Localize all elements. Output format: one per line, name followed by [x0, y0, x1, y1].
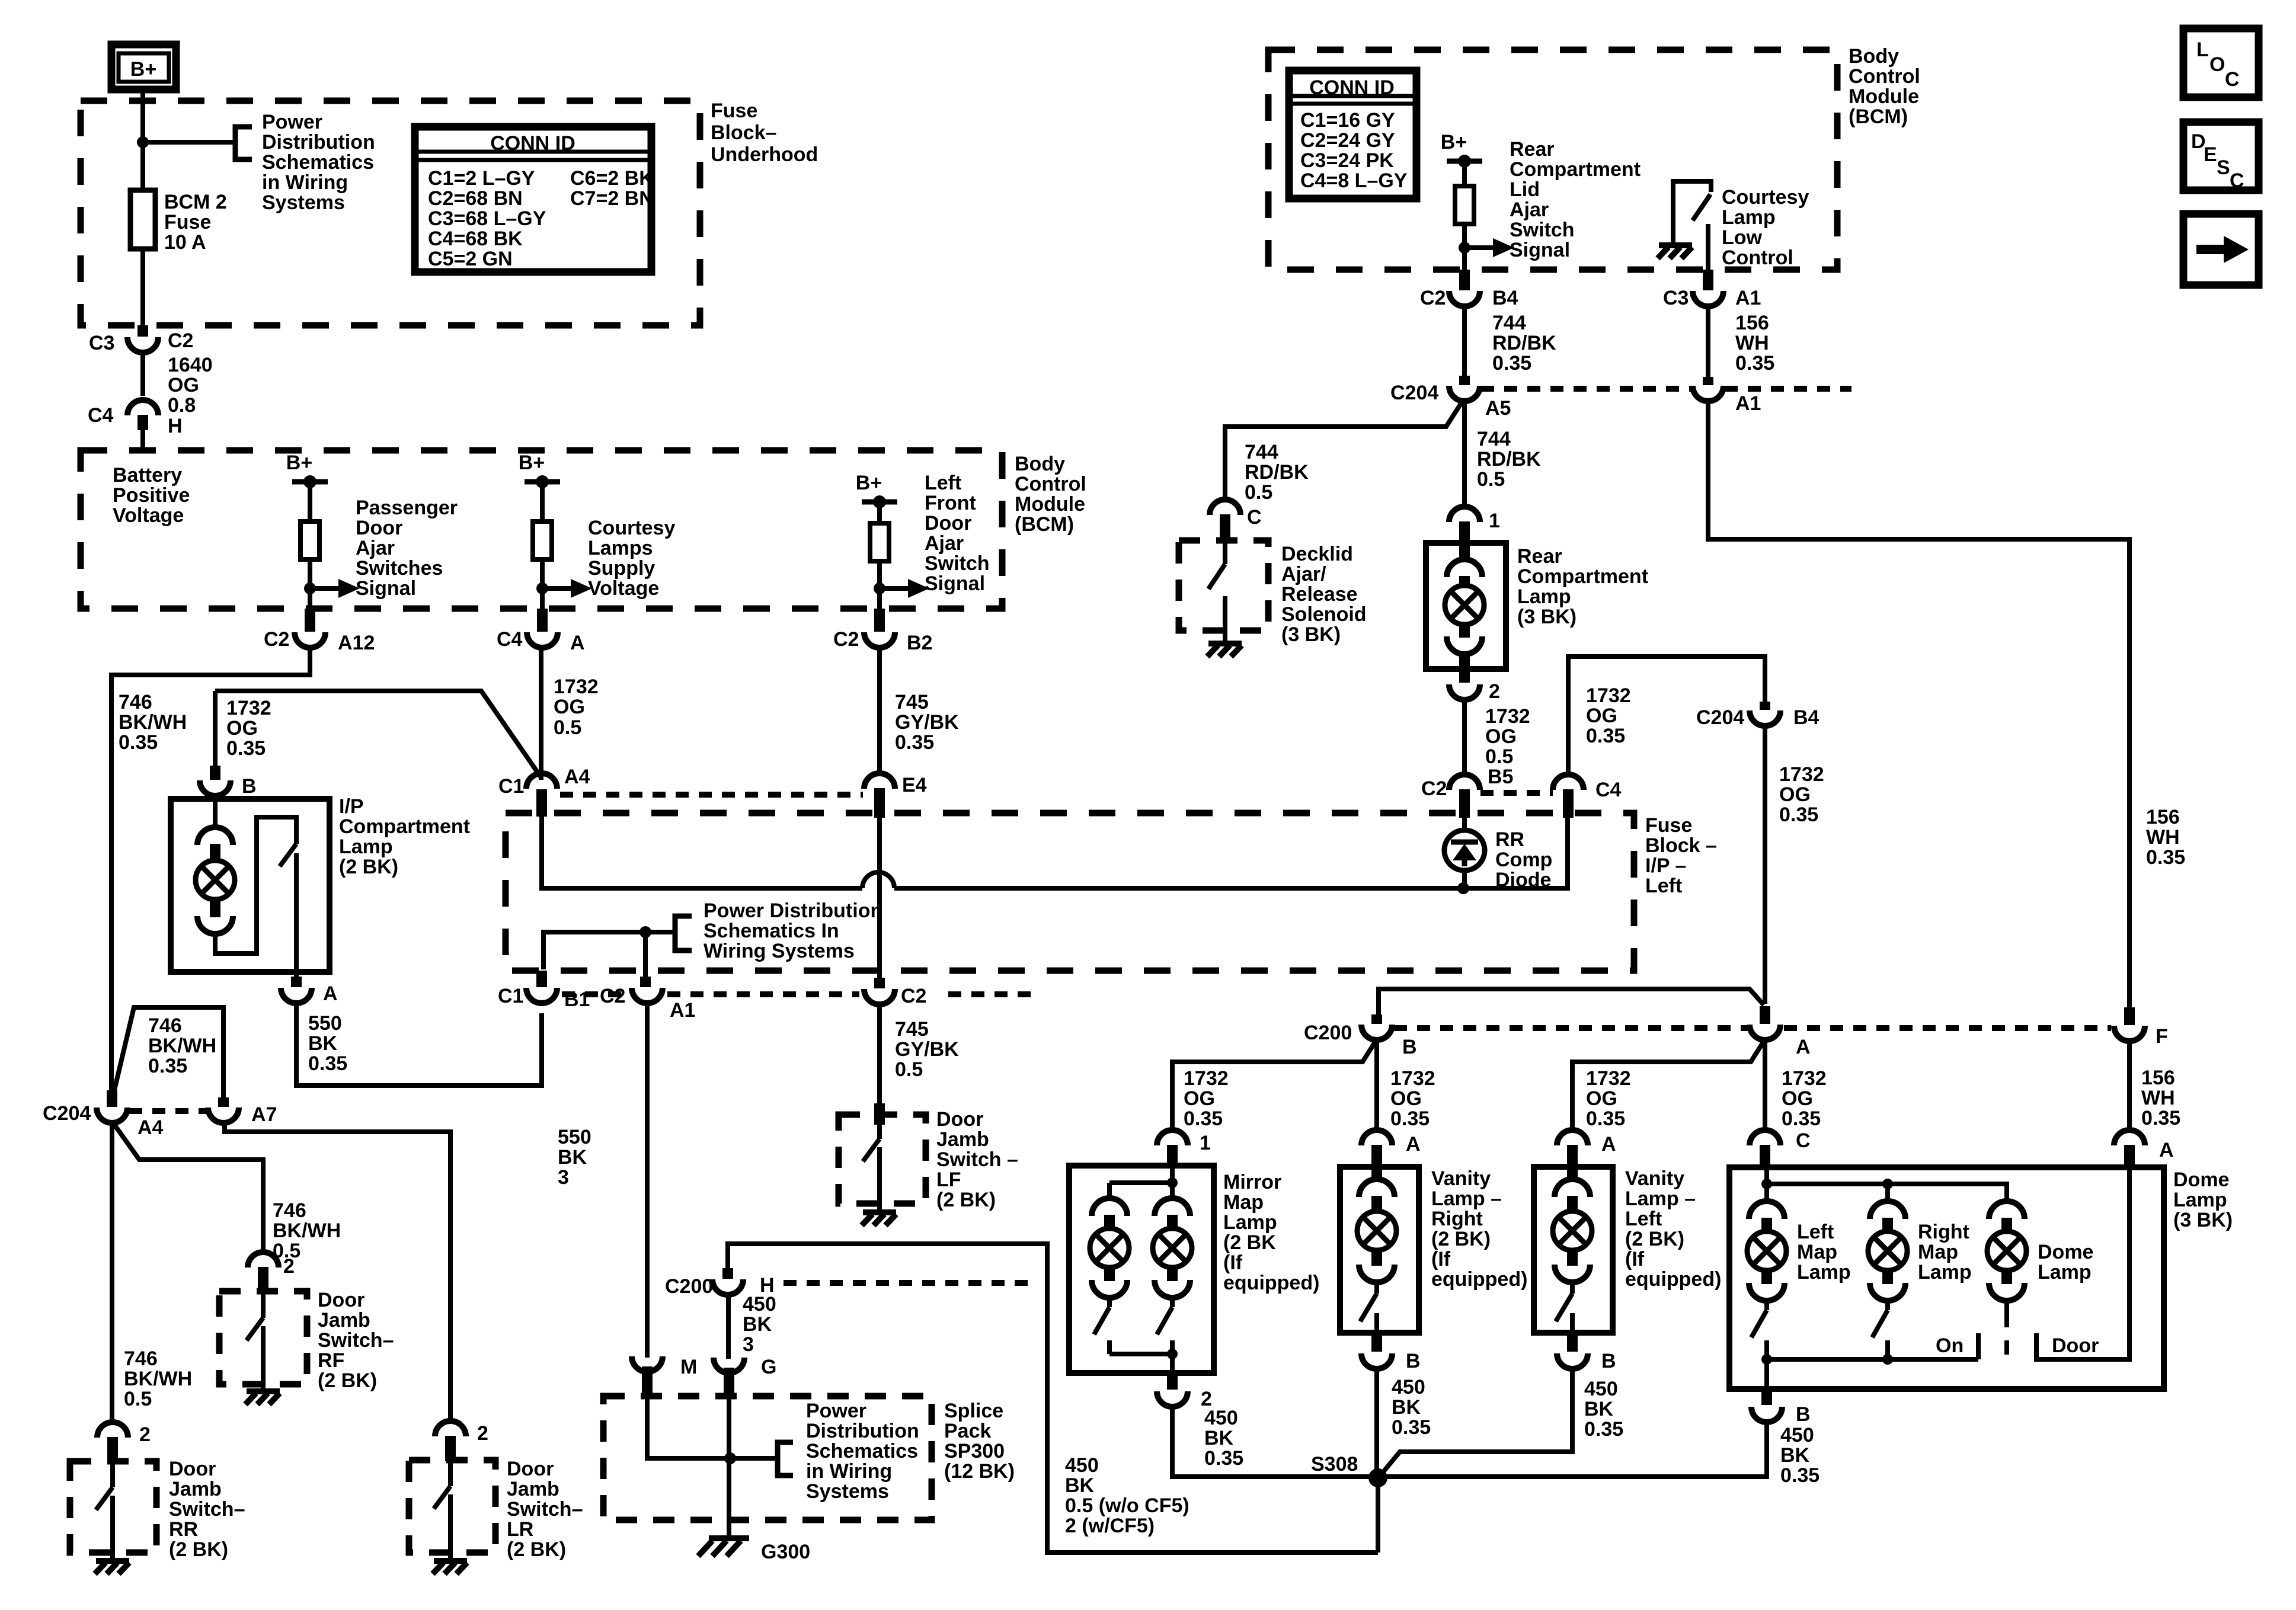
svg-text:BK/WH: BK/WH: [124, 1368, 192, 1390]
svg-text:Courtesy: Courtesy: [1722, 186, 1809, 209]
connector B vanity left: [1567, 1333, 1578, 1352]
svg-text:746: 746: [119, 691, 152, 713]
connector C204/B4: [1750, 710, 1780, 726]
connector A vanity left: [1557, 1130, 1588, 1145]
svg-text:10 A: 10 A: [164, 231, 206, 254]
svg-text:Compartment: Compartment: [339, 815, 470, 838]
svg-text:(If: (If: [1223, 1251, 1243, 1274]
inline connector dashed line B1 A1 C2: [562, 991, 627, 997]
svg-text:Map: Map: [1797, 1241, 1837, 1263]
node mirror bus: [1167, 1349, 1178, 1359]
wire A7 to door jamb switch LR: [225, 1122, 450, 1422]
connector 2 door jamb switch RR: [97, 1422, 128, 1438]
svg-text:Signal: Signal: [1510, 239, 1570, 261]
DESC box: [2183, 122, 2259, 192]
svg-text:Jamb: Jamb: [318, 1309, 370, 1331]
connector C204/A7: [208, 1108, 239, 1123]
svg-text:Block –: Block –: [1645, 834, 1717, 857]
svg-text:C1: C1: [498, 775, 524, 798]
wire S308 lower leg: [1376, 1478, 1380, 1553]
svg-text:2 (w/CF5): 2 (w/CF5): [1065, 1515, 1155, 1537]
vanity lamp left box: [1534, 1167, 1613, 1333]
svg-text:C3: C3: [1663, 287, 1689, 309]
svg-text:G300: G300: [761, 1541, 810, 1563]
svg-text:OG: OG: [1586, 705, 1617, 727]
svg-text:(2 BK): (2 BK): [1431, 1228, 1491, 1250]
svg-text:0.35: 0.35: [1584, 1418, 1623, 1441]
connector B dome: [1751, 1407, 1782, 1422]
connector C decklid: [1210, 500, 1240, 515]
ground decklid: [1207, 644, 1242, 657]
svg-text:A7: A7: [251, 1103, 277, 1126]
connector C200/A stub: [1760, 1006, 1770, 1024]
dome switch left: [1751, 1298, 1767, 1359]
svg-text:C3=24 PK: C3=24 PK: [1300, 149, 1394, 172]
connector C3/C2: [127, 337, 158, 353]
connector C dome lamp: [1750, 1130, 1780, 1145]
connector C2/B2: [864, 632, 895, 648]
wire C1/A4 down to bus: [542, 817, 862, 888]
svg-text:C2: C2: [1421, 777, 1447, 800]
svg-text:2: 2: [139, 1423, 151, 1446]
svg-text:Dome: Dome: [2173, 1169, 2229, 1191]
ground G300: [698, 1538, 749, 1556]
svg-text:WH: WH: [1735, 332, 1769, 354]
svg-text:C5=2 GN: C5=2 GN: [428, 248, 513, 270]
svg-text:C4=8 L–GY: C4=8 L–GY: [1300, 169, 1408, 192]
svg-text:Power: Power: [262, 111, 322, 133]
svg-text:0.5: 0.5: [1477, 468, 1505, 491]
svg-text:C4: C4: [1595, 779, 1622, 801]
wire B4 down 1732 OG 0.35: [1763, 725, 1767, 1004]
svg-text:Distribution: Distribution: [806, 1420, 919, 1442]
svg-text:Decklid: Decklid: [1281, 543, 1353, 565]
svg-text:OG: OG: [1390, 1087, 1422, 1110]
svg-text:Low: Low: [1722, 226, 1763, 249]
wire A4 to door jamb switch RR: [110, 1122, 114, 1423]
connector C200/A: [1750, 1025, 1780, 1040]
label 450 BK CF5: [1065, 1454, 1189, 1537]
svg-text:Lamp: Lamp: [1797, 1261, 1851, 1283]
connector 1 rear lamp: [1449, 507, 1480, 522]
bracket note power distribution middle: [675, 916, 692, 950]
svg-text:Vanity: Vanity: [1625, 1167, 1684, 1190]
svg-text:(2 BK): (2 BK): [339, 856, 398, 878]
connector C3/A1 stub: [1703, 270, 1713, 290]
connector M: [632, 1356, 663, 1372]
svg-text:745: 745: [895, 1018, 929, 1041]
svg-text:I/P –: I/P –: [1645, 854, 1686, 877]
svg-text:B+: B+: [286, 452, 312, 474]
svg-text:(3 BK): (3 BK): [2173, 1209, 2233, 1231]
svg-text:450: 450: [743, 1293, 776, 1315]
svg-text:C: C: [2230, 169, 2244, 192]
svg-text:Distribution: Distribution: [262, 131, 375, 153]
svg-text:1732: 1732: [226, 697, 271, 719]
svg-text:S: S: [2217, 156, 2230, 179]
wire 745 GY/BK 0.5 to LF switch: [877, 1004, 882, 1114]
B+ drop rear compartment lid ajar switch signal: [1441, 131, 1514, 270]
wire bus to C4: [894, 795, 1568, 888]
svg-text:450: 450: [1584, 1378, 1618, 1400]
svg-text:BK/WH: BK/WH: [148, 1035, 216, 1057]
IP lamp switch: [215, 817, 296, 977]
svg-text:C3=68 L–GY: C3=68 L–GY: [428, 207, 546, 230]
svg-text:C200: C200: [1304, 1022, 1352, 1044]
svg-text:C7=2 BN: C7=2 BN: [570, 187, 654, 210]
label body control module BCM right: [1849, 45, 1920, 128]
svg-text:1: 1: [1200, 1132, 1211, 1154]
svg-text:Signal: Signal: [925, 572, 985, 595]
svg-text:450: 450: [1392, 1376, 1425, 1398]
svg-text:Control: Control: [1849, 65, 1920, 88]
svg-text:744: 744: [1477, 428, 1511, 450]
svg-text:0.35: 0.35: [895, 731, 934, 754]
svg-text:CONN ID: CONN ID: [1309, 76, 1395, 99]
svg-text:B+: B+: [1441, 131, 1467, 153]
wire tap arm: [143, 140, 234, 145]
wire 450 BK 0.35 dome to S308: [1381, 1422, 1767, 1477]
RR comp diode: [1462, 818, 1467, 831]
wire 1640 OG 0.8: [140, 352, 145, 396]
svg-text:Body: Body: [1849, 45, 1899, 68]
svg-text:Fuse: Fuse: [164, 211, 211, 233]
svg-text:C204: C204: [43, 1102, 91, 1125]
svg-text:1732: 1732: [1782, 1067, 1827, 1090]
connector C204/B4 stub: [1760, 702, 1770, 710]
svg-text:0.35: 0.35: [119, 731, 158, 754]
mirror switch left: [1094, 1295, 1109, 1354]
label battery positive voltage: [113, 464, 190, 527]
connector C2/B4: [1449, 291, 1480, 306]
svg-text:Lamps: Lamps: [588, 537, 653, 559]
svg-text:BK: BK: [1392, 1396, 1421, 1419]
svg-text:Ajar: Ajar: [356, 537, 395, 559]
node diode junction: [1457, 882, 1469, 894]
vanity lamp right box: [1340, 1167, 1419, 1333]
wire A5 branch to decklid: [1225, 402, 1462, 501]
svg-text:744: 744: [1492, 312, 1526, 334]
svg-text:(3 BK): (3 BK): [1281, 623, 1341, 646]
connector C2/B2 stub: [874, 609, 885, 632]
node mirror feed: [1167, 1177, 1178, 1188]
switch RF: [247, 1292, 263, 1389]
vanity left bulb: [1567, 1167, 1578, 1182]
svg-text:Compartment: Compartment: [1510, 158, 1641, 181]
connector A vanity right: [1361, 1130, 1392, 1145]
svg-text:0.5: 0.5: [895, 1058, 923, 1081]
mirror bulb right: [1155, 1198, 1190, 1216]
svg-text:0.35: 0.35: [148, 1055, 187, 1077]
svg-text:GY/BK: GY/BK: [895, 711, 959, 734]
mirror bottom bus: [1109, 1354, 1172, 1373]
svg-text:Map: Map: [1918, 1241, 1958, 1263]
splice S308: [1368, 1468, 1387, 1487]
svg-text:B4: B4: [1793, 706, 1819, 729]
svg-text:OG: OG: [554, 696, 585, 718]
svg-text:A: A: [570, 632, 585, 654]
wire 744 RD/BK 0.35: [1462, 306, 1467, 376]
CONN ID table left: [415, 127, 654, 272]
svg-text:450: 450: [1065, 1454, 1099, 1477]
wire into BCM: [140, 430, 145, 450]
svg-text:0.5: 0.5: [124, 1388, 152, 1410]
svg-text:(2 BK): (2 BK): [936, 1189, 996, 1211]
svg-text:B: B: [1402, 1036, 1417, 1058]
svg-text:B+: B+: [130, 58, 156, 81]
svg-text:Door: Door: [925, 512, 971, 534]
svg-text:OG: OG: [168, 374, 199, 396]
svg-text:1732: 1732: [1390, 1067, 1435, 1090]
connector B IP lamp stub: [210, 766, 220, 780]
B+ battery feed terminal box: [111, 44, 176, 89]
svg-text:0.35: 0.35: [1735, 352, 1774, 375]
door jamb switch RF dashed box: [219, 1291, 307, 1384]
node ground net: [639, 926, 651, 938]
svg-text:Control: Control: [1015, 473, 1086, 495]
svg-text:(BCM): (BCM): [1015, 513, 1074, 536]
svg-text:A1: A1: [670, 999, 695, 1022]
BCM right dashed box: [1268, 50, 1837, 270]
svg-text:1732: 1732: [1779, 763, 1824, 786]
svg-text:C2: C2: [600, 985, 625, 1007]
dome switch bottom bus: [1767, 1333, 1978, 1359]
vanity right switch: [1360, 1280, 1377, 1333]
svg-text:Vanity: Vanity: [1431, 1167, 1491, 1190]
svg-text:Ajar/: Ajar/: [1281, 563, 1326, 585]
wire A to dome C: [1763, 1039, 1767, 1129]
svg-text:A: A: [2159, 1139, 2174, 1161]
connector C1/A4 stub: [536, 789, 547, 817]
dome lamp bulb: [1989, 1201, 2025, 1219]
svg-text:1732: 1732: [554, 676, 599, 698]
svg-text:Jamb: Jamb: [507, 1478, 559, 1500]
svg-text:Lamp: Lamp: [1223, 1211, 1277, 1234]
svg-text:2: 2: [477, 1422, 488, 1445]
wire fuse to C3 connector: [140, 249, 145, 325]
svg-text:C1: C1: [498, 985, 523, 1007]
wire 156 WH right side run: [1708, 401, 2129, 1007]
svg-text:Battery: Battery: [113, 464, 182, 486]
svg-text:BK: BK: [308, 1032, 338, 1055]
svg-text:A4: A4: [137, 1116, 164, 1139]
svg-text:A1: A1: [1735, 287, 1761, 309]
svg-text:Ajar: Ajar: [925, 532, 964, 555]
switch LR: [434, 1461, 450, 1558]
connector C200/H stub: [722, 1268, 733, 1279]
connector C204 dashed line right: [1481, 386, 1693, 392]
wire 450 BK 3 H to G: [726, 1294, 731, 1359]
connector C3/A1: [1693, 291, 1723, 306]
svg-text:0.35: 0.35: [308, 1052, 347, 1075]
svg-text:OG: OG: [1586, 1087, 1617, 1110]
svg-text:OG: OG: [1184, 1087, 1215, 1110]
bracket note power distribution splice: [778, 1442, 793, 1475]
svg-text:(If: (If: [1431, 1248, 1451, 1270]
wire branch to C204 A7: [113, 1007, 223, 1097]
node power distribution tap: [137, 136, 149, 148]
svg-text:SP300: SP300: [944, 1440, 1005, 1462]
mirror bulb left: [1092, 1198, 1127, 1216]
svg-text:CONN ID: CONN ID: [490, 132, 575, 155]
svg-text:Switch–: Switch–: [169, 1498, 245, 1521]
svg-text:3: 3: [743, 1333, 754, 1356]
svg-text:Wiring Systems: Wiring Systems: [703, 940, 855, 962]
svg-text:RD/BK: RD/BK: [1492, 332, 1556, 354]
svg-text:C2: C2: [168, 329, 193, 352]
svg-text:Lamp –: Lamp –: [1431, 1188, 1502, 1210]
wire 550 BK 0.35 to C1/B1: [296, 1003, 542, 1086]
connector C204/A5: [1449, 386, 1480, 401]
svg-text:Positive: Positive: [113, 484, 190, 507]
svg-text:0.35: 0.35: [1392, 1416, 1431, 1439]
node dome feed middle: [1882, 1179, 1893, 1189]
svg-text:WH: WH: [2146, 826, 2180, 849]
svg-text:C2: C2: [833, 628, 859, 651]
fuse block IP left dashed box: [506, 813, 1634, 971]
svg-text:0.35: 0.35: [1390, 1108, 1430, 1130]
svg-text:OG: OG: [1485, 725, 1517, 748]
B+ drop passenger door ajar switches signal: [286, 452, 360, 609]
svg-text:(12 BK): (12 BK): [944, 1460, 1015, 1483]
svg-text:Voltage: Voltage: [113, 504, 184, 527]
svg-text:Supply: Supply: [588, 557, 655, 580]
svg-text:E4: E4: [902, 774, 927, 796]
mirror map lamp box: [1069, 1166, 1214, 1373]
svg-text:1732: 1732: [1586, 684, 1631, 707]
ground RR: [95, 1561, 129, 1574]
connector 2 rear lamp: [1449, 684, 1480, 700]
wire A4 branch to door jamb switch RF: [114, 1125, 263, 1254]
connector C200 dashed line: [1394, 1025, 1748, 1031]
svg-text:Compartment: Compartment: [1517, 565, 1648, 588]
svg-text:L: L: [2196, 39, 2209, 61]
svg-text:A1: A1: [1735, 392, 1761, 415]
svg-text:Voltage: Voltage: [588, 577, 659, 600]
svg-text:C204: C204: [1390, 382, 1438, 404]
wire 450 BK 0.35 mirror to S308: [1172, 1406, 1375, 1477]
svg-text:C204: C204: [1696, 706, 1744, 729]
forward arrow box: [2183, 214, 2259, 285]
svg-text:1: 1: [1489, 510, 1500, 532]
connector A IP lamp: [281, 988, 312, 1003]
svg-text:Power Distribution: Power Distribution: [703, 900, 882, 922]
svg-text:A: A: [1796, 1036, 1811, 1058]
svg-text:Door: Door: [507, 1458, 554, 1480]
connector C2 LF stub: [874, 978, 885, 988]
LOC box: [2183, 28, 2259, 97]
ground LF: [862, 1212, 896, 1225]
svg-text:Left: Left: [1645, 875, 1682, 897]
connector C4/H: [127, 400, 158, 415]
svg-text:1732: 1732: [1485, 705, 1530, 728]
svg-text:(If: (If: [1625, 1248, 1645, 1270]
svg-text:C4=68 BK: C4=68 BK: [428, 228, 523, 250]
mirror lamp internal feed: [1109, 1167, 1172, 1201]
connector C204/A4: [97, 1108, 127, 1123]
svg-text:Schematics: Schematics: [262, 151, 374, 174]
connector A1 inline stub: [1703, 377, 1713, 385]
connector C2/A1: [632, 988, 663, 1003]
svg-text:0.35: 0.35: [1586, 1108, 1625, 1130]
svg-text:746: 746: [148, 1014, 182, 1037]
svg-text:C6=2 BK: C6=2 BK: [570, 167, 654, 190]
BCM left dashed box: [81, 450, 1002, 609]
svg-text:3: 3: [558, 1166, 569, 1189]
wire 450 BK 0.35 vanity left to S308: [1380, 1368, 1572, 1476]
svg-text:Right: Right: [1918, 1221, 1969, 1243]
connector C4 fuse block: [1553, 774, 1584, 790]
svg-text:C4: C4: [88, 404, 114, 427]
svg-text:A12: A12: [338, 632, 375, 654]
door jamb switch LF dashed box: [839, 1115, 926, 1204]
wire 1732 OG 0.35 branch to IP lamp: [215, 691, 541, 777]
connector 2 door jamb switch RF: [248, 1252, 279, 1267]
svg-text:On: On: [1936, 1334, 1964, 1357]
svg-text:C3: C3: [89, 332, 114, 354]
svg-text:1732: 1732: [1586, 1067, 1631, 1090]
svg-text:BK: BK: [1204, 1427, 1234, 1449]
dome switch right: [1872, 1298, 1888, 1359]
svg-text:C: C: [1247, 506, 1262, 529]
svg-text:450: 450: [1204, 1407, 1238, 1429]
svg-text:Switch: Switch: [1510, 219, 1575, 241]
svg-text:OG: OG: [1779, 783, 1811, 806]
svg-text:Lamp: Lamp: [1722, 206, 1776, 229]
svg-text:Rear: Rear: [1510, 138, 1555, 161]
svg-text:0.35: 0.35: [1586, 725, 1625, 747]
svg-text:B4: B4: [1492, 287, 1518, 309]
svg-text:RD/BK: RD/BK: [1245, 461, 1309, 484]
svg-text:Lamp –: Lamp –: [1625, 1188, 1696, 1210]
svg-text:OG: OG: [226, 717, 258, 740]
svg-text:Courtesy: Courtesy: [588, 517, 675, 539]
svg-text:550: 550: [308, 1012, 342, 1035]
rear lamp bulb: [1459, 545, 1470, 562]
svg-text:2: 2: [1489, 680, 1500, 703]
connector C4 stub: [137, 415, 148, 430]
svg-text:0.35: 0.35: [1184, 1108, 1223, 1130]
IP compartment lamp box: [171, 799, 330, 972]
svg-text:Switch –: Switch –: [936, 1148, 1018, 1171]
svg-text:G: G: [761, 1356, 776, 1378]
switch LF: [863, 1115, 880, 1210]
svg-text:Door: Door: [2052, 1334, 2099, 1357]
svg-text:550: 550: [558, 1126, 591, 1148]
svg-text:BK/WH: BK/WH: [273, 1219, 341, 1242]
svg-text:Door: Door: [936, 1108, 983, 1131]
connector C200/B: [1361, 1025, 1392, 1040]
vanity right bulb: [1371, 1167, 1382, 1182]
svg-text:746: 746: [124, 1347, 158, 1370]
svg-text:Switch: Switch: [925, 552, 990, 575]
svg-text:BK: BK: [1780, 1444, 1810, 1467]
connector C4/A stub: [537, 609, 548, 632]
wire hop over E4 wire: [862, 872, 894, 888]
svg-text:B: B: [1406, 1350, 1421, 1372]
svg-text:Switch–: Switch–: [318, 1329, 394, 1352]
wire F to dome A: [2127, 1041, 2132, 1128]
svg-text:OG: OG: [1782, 1087, 1813, 1110]
svg-text:A4: A4: [564, 766, 590, 788]
connector C4/A: [527, 632, 558, 648]
connector C200/H: [712, 1279, 743, 1295]
svg-text:1640: 1640: [168, 354, 213, 376]
svg-text:746: 746: [273, 1199, 306, 1222]
svg-text:A: A: [323, 982, 338, 1005]
svg-text:0.5 (w/o CF5): 0.5 (w/o CF5): [1065, 1494, 1189, 1517]
door jamb switch RR dashed box: [70, 1461, 156, 1553]
